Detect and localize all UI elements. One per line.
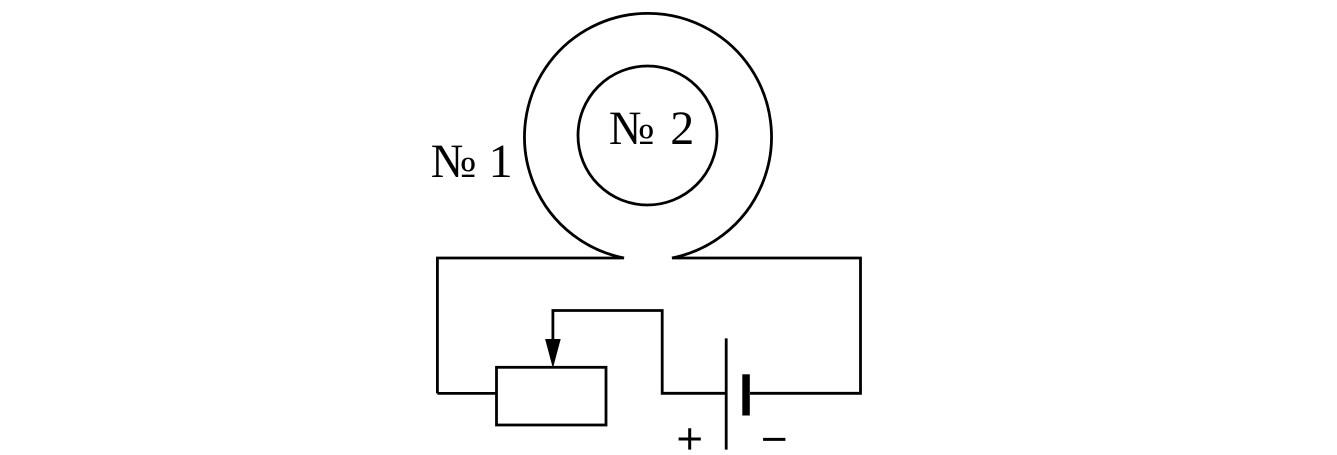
svg-text:№ 2: № 2 xyxy=(609,102,694,155)
svg-text:№ 1: № 1 xyxy=(431,135,513,188)
